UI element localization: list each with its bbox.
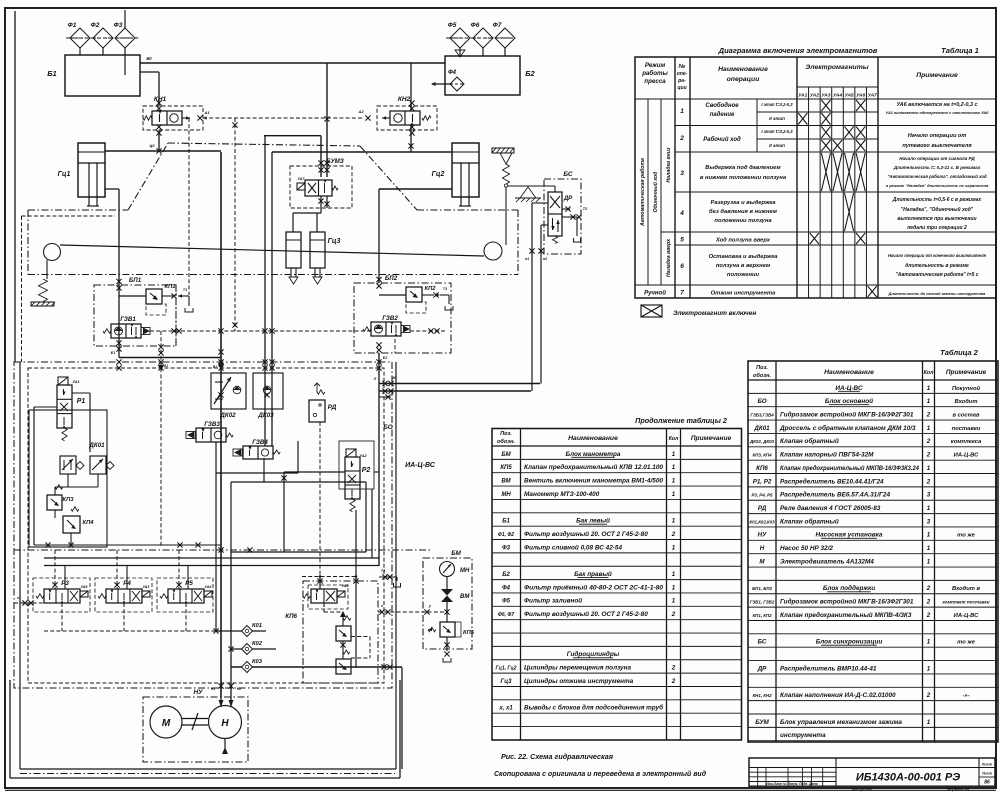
dash-dot bottom of ИА-Ц-ВС bbox=[195, 542, 200, 547]
svg-text:в режиме "Наладка" длительност: в режиме "Наладка" длительность не огран… bbox=[886, 183, 989, 188]
svg-text:УА1 включается одновременно с: УА1 включается одновременно с отключение… bbox=[886, 110, 990, 115]
svg-text:"Автоматическая работа" t=5 с: "Автоматическая работа" t=5 с bbox=[895, 271, 978, 278]
svg-text:Блок манометра: Блок манометра bbox=[566, 451, 621, 458]
svg-text:Длительность t=0,5-6 с в режим: Длительность t=0,5-6 с в режимах bbox=[892, 197, 982, 203]
valve Р2 bbox=[346, 449, 356, 457]
svg-text:Н: Н bbox=[221, 718, 229, 729]
svg-text:п1: п1 bbox=[525, 257, 529, 261]
svg-text:Распределитель ВЕ6.57.4А.31/Г2: Распределитель ВЕ6.57.4А.31/Г24 bbox=[780, 491, 890, 499]
svg-text:Ф2: Ф2 bbox=[91, 22, 100, 29]
svg-text:2: 2 bbox=[926, 692, 931, 699]
svg-text:1: 1 bbox=[672, 544, 676, 551]
БП2 ports bbox=[376, 342, 381, 347]
filter Ф3 bbox=[115, 28, 135, 48]
svg-text:Покупной: Покупной bbox=[952, 385, 981, 392]
svg-text:Начало операции от сигнала РД: Начало операции от сигнала РД bbox=[899, 156, 975, 161]
svg-text:Бак правый: Бак правый bbox=[574, 570, 612, 578]
svg-text:ВМ: ВМ bbox=[501, 478, 511, 484]
svg-text:1: 1 bbox=[927, 639, 931, 646]
svg-text:Отжим инструмента: Отжим инструмента bbox=[711, 291, 776, 297]
svg-text:К01: К01 bbox=[252, 623, 262, 629]
svg-text:УА5: УА5 bbox=[81, 585, 89, 589]
block БС bbox=[544, 179, 581, 254]
drain Т3 bbox=[379, 576, 397, 578]
svg-text:Т3: Т3 bbox=[443, 287, 447, 291]
filter Ф1 bbox=[70, 28, 90, 48]
svg-text:Продолжение таблицы 2: Продолжение таблицы 2 bbox=[635, 416, 727, 425]
svg-text:ДК01: ДК01 bbox=[88, 442, 105, 449]
svg-text:1: 1 bbox=[927, 385, 931, 392]
svg-text:2: 2 bbox=[926, 478, 931, 485]
svg-text:Диаграмма включения электромаг: Диаграмма включения электромагнитов bbox=[718, 46, 878, 55]
valve feed stems bbox=[64, 566, 66, 589]
filter Ф6 bbox=[473, 28, 493, 48]
svg-text:ДК02: ДК02 bbox=[219, 412, 236, 419]
svg-text:Е2: Е2 bbox=[383, 356, 387, 360]
svg-text:МН: МН bbox=[501, 492, 511, 498]
drain manifold dashed bbox=[44, 630, 215, 632]
port x1 bbox=[22, 600, 27, 605]
svg-text:ИА-Ц-ВС: ИА-Ц-ВС bbox=[835, 385, 863, 392]
svg-text:Примечание: Примечание bbox=[916, 72, 958, 79]
svg-text:ДК03: ДК03 bbox=[257, 412, 274, 419]
svg-text:Клапан предохранительный КПВ 1: Клапан предохранительный КПВ 12.01.100 bbox=[524, 463, 663, 471]
svg-text:Распределитель ВЕ10.44.41/Г24: Распределитель ВЕ10.44.41/Г24 bbox=[780, 477, 884, 485]
svg-text:Фильтр сливной 0,08 ВС 42-54: Фильтр сливной 0,08 ВС 42-54 bbox=[524, 543, 622, 551]
svg-text:Гц1, Гц2: Гц1, Гц2 bbox=[496, 666, 517, 672]
title block bbox=[749, 758, 995, 786]
pilot dashed line ГЗВ1-ГЗВ2 bbox=[150, 330, 371, 332]
svg-text:М: М bbox=[759, 558, 765, 565]
right pulley bbox=[484, 242, 502, 260]
svg-text:УА5: УА5 bbox=[845, 93, 854, 99]
svg-text:2: 2 bbox=[671, 678, 676, 685]
svg-text:ВМ: ВМ bbox=[460, 594, 470, 600]
svg-text:3: 3 bbox=[927, 492, 931, 499]
check valve К03 bbox=[231, 666, 402, 668]
svg-text:2: 2 bbox=[926, 438, 931, 445]
svg-text:Насосная установка: Насосная установка bbox=[816, 532, 883, 539]
svg-text:ИБ1430А-00-001 РЭ: ИБ1430А-00-001 РЭ bbox=[856, 772, 960, 784]
svg-text:Лист: Лист bbox=[981, 763, 993, 767]
wire Гц1 top port bbox=[105, 150, 221, 152]
svg-text:1: 1 bbox=[927, 719, 931, 726]
left pulley bbox=[44, 244, 61, 261]
svg-text:НУ: НУ bbox=[758, 532, 767, 539]
svg-text:Лист: Лист bbox=[981, 772, 993, 776]
svg-text:Кол: Кол bbox=[669, 436, 679, 442]
svg-text:Поз.: Поз. bbox=[500, 431, 512, 437]
svg-text:ДР: ДР bbox=[563, 196, 573, 202]
wire Б0 from tank Б1 to tank Б2 bbox=[140, 62, 445, 64]
svg-text:Режим: Режим bbox=[645, 62, 666, 69]
throttle-check ДК02 bbox=[211, 373, 246, 409]
svg-text:Фильтр воздушный 20. ОСТ 2 Г45: Фильтр воздушный 20. ОСТ 2 Г45-2-80 bbox=[524, 610, 648, 618]
svg-text:Клапан напорный ПВГ54-32М: Клапан напорный ПВГ54-32М bbox=[780, 451, 874, 459]
svg-text:УА4: УА4 bbox=[833, 93, 842, 99]
svg-text:II этап: II этап bbox=[769, 143, 785, 148]
svg-text:инструмента: инструмента bbox=[780, 732, 826, 739]
Р1 wires bbox=[34, 406, 57, 408]
svg-text:Рабочий ход: Рабочий ход bbox=[703, 136, 741, 143]
svg-text:Ф4: Ф4 bbox=[502, 585, 511, 591]
svg-text:педали три операции 2: педали три операции 2 bbox=[907, 225, 967, 231]
tank Б1 bbox=[65, 55, 140, 96]
Р2 wires bbox=[284, 471, 345, 473]
block БО boundary bbox=[28, 368, 384, 683]
svg-text:Р3, Р4, Р5: Р3, Р4, Р5 bbox=[752, 493, 774, 498]
svg-text:Ф5: Ф5 bbox=[502, 599, 511, 605]
svg-text:КП6: КП6 bbox=[756, 465, 768, 472]
svg-text:ДК01: ДК01 bbox=[753, 425, 770, 432]
svg-text:Цилиндры отжима инструмента: Цилиндры отжима инструмента bbox=[524, 677, 634, 685]
svg-text:БП1, БП2: БП1, БП2 bbox=[752, 586, 772, 591]
svg-text:УА1: УА1 bbox=[72, 380, 79, 384]
svg-text:Р5: Р5 bbox=[185, 580, 193, 587]
svg-text:КП3: КП3 bbox=[63, 497, 75, 503]
block БУМЗ bbox=[290, 166, 352, 208]
svg-text:КН1, КН2: КН1, КН2 bbox=[752, 693, 772, 698]
block ИА-Ц-ВС boundary bbox=[14, 362, 392, 688]
pilot line А1 bbox=[197, 115, 202, 120]
relief valve КП2 bbox=[406, 287, 422, 302]
svg-text:БС: БС bbox=[563, 171, 573, 178]
svg-text:№: № bbox=[678, 63, 686, 70]
svg-text:УА3: УА3 bbox=[821, 93, 830, 99]
svg-text:ции: ции bbox=[677, 85, 686, 91]
junction marks on БО border bbox=[116, 359, 121, 364]
solid box around Р1/ДК01/КП3/КП4 bbox=[29, 410, 107, 547]
pilot drops to valves bbox=[54, 550, 56, 581]
svg-text:Б2: Б2 bbox=[502, 572, 510, 578]
svg-text:Насос 50 НР 32/2: Насос 50 НР 32/2 bbox=[780, 545, 833, 552]
press frame dash-dot outline bbox=[28, 209, 128, 211]
svg-text:Входит: Входит bbox=[954, 399, 977, 405]
cylinder Гц1 bbox=[78, 143, 105, 197]
svg-text:Н2: Н2 bbox=[237, 687, 241, 691]
dashed line through filters Ф1-Ф3 bbox=[66, 37, 139, 39]
svg-text:1: 1 bbox=[927, 665, 931, 672]
svg-text:А2: А2 bbox=[357, 109, 364, 114]
svg-text:М: М bbox=[162, 718, 171, 729]
svg-text:2: 2 bbox=[926, 599, 931, 606]
svg-text:Ф7: Ф7 bbox=[493, 22, 502, 29]
svg-text:ра-: ра- bbox=[677, 78, 686, 84]
svg-text:Автоматическая работа: Автоматическая работа bbox=[639, 158, 646, 227]
dashed x-y line to БМ bbox=[378, 611, 447, 613]
svg-text:Ф6: Ф6 bbox=[471, 22, 480, 29]
svg-text:1: 1 bbox=[672, 451, 676, 458]
svg-text:Ф5: Ф5 bbox=[448, 22, 457, 29]
svg-text:УА7: УА7 bbox=[298, 177, 306, 181]
svg-text:БО: БО bbox=[383, 424, 393, 431]
svg-text:УА1: УА1 bbox=[798, 93, 807, 99]
svg-text:Рис. 22. Схема гидравлическая: Рис. 22. Схема гидравлическая bbox=[501, 752, 614, 761]
svg-text:поставки: поставки bbox=[952, 426, 981, 432]
svg-text:I этап t=0,2-0,3: I этап t=0,2-0,3 bbox=[761, 102, 793, 107]
svg-text:опе-: опе- bbox=[677, 71, 688, 77]
svg-text:ГЗВ3: ГЗВ3 bbox=[204, 421, 220, 428]
svg-text:УА7: УА7 bbox=[868, 93, 877, 99]
svg-text:Ход ползуна вверх: Ход ползуна вверх bbox=[715, 238, 771, 244]
svg-text:положении ползуна: положении ползуна bbox=[714, 218, 772, 224]
svg-text:УА2: УА2 bbox=[359, 454, 367, 458]
svg-text:Ф1, Ф2: Ф1, Ф2 bbox=[498, 532, 514, 538]
svg-text:1: 1 bbox=[672, 464, 676, 471]
svg-text:Клапан предохранительный МКПВ-: Клапан предохранительный МКПВ-4/3К3 bbox=[780, 611, 912, 619]
svg-text:КП5: КП5 bbox=[463, 630, 475, 636]
pilot dashed vertical x235 bbox=[234, 118, 236, 331]
relief valve КП1 bbox=[146, 289, 162, 304]
svg-text:ИА-Ц-ВС: ИА-Ц-ВС bbox=[405, 462, 436, 469]
long dash-dot separator y550 bbox=[14, 549, 430, 551]
svg-text:Бак левый: Бак левый bbox=[576, 517, 610, 525]
svg-text:падение: падение bbox=[710, 112, 735, 118]
svg-text:х, х1: х, х1 bbox=[498, 706, 513, 712]
svg-text:Остановка и выдержка: Остановка и выдержка bbox=[709, 254, 779, 260]
relief valve in КП6 upper bbox=[340, 611, 346, 617]
svg-text:Выводы с блоков для подсоедине: Выводы с блоков для подсоединения труб bbox=[524, 704, 664, 712]
БО output wires bbox=[378, 353, 380, 566]
svg-text:УА6: УА6 bbox=[856, 93, 865, 99]
svg-text:2: 2 bbox=[926, 411, 931, 418]
svg-text:II этап: II этап bbox=[769, 116, 785, 121]
svg-text:1: 1 bbox=[927, 465, 931, 472]
svg-text:К02: К02 bbox=[252, 641, 263, 647]
svg-text:ГЗВ3,ГЗВ4: ГЗВ3,ГЗВ4 bbox=[750, 412, 774, 417]
support triangle bbox=[520, 187, 536, 198]
svg-text:Наладка вверх: Наладка вверх bbox=[666, 238, 672, 277]
svg-text:КП1, КП2: КП1, КП2 bbox=[752, 613, 772, 618]
feed lines into БО bbox=[264, 135, 266, 446]
svg-text:Ф4: Ф4 bbox=[448, 70, 457, 76]
valve Р4 bbox=[98, 594, 106, 598]
svg-text:Таблица 1: Таблица 1 bbox=[941, 46, 979, 55]
left spring support bbox=[46, 260, 48, 279]
svg-text:7: 7 bbox=[680, 290, 684, 297]
svg-text:ползуна в верхнем: ползуна в верхнем bbox=[716, 263, 771, 269]
svg-text:Наименование: Наименование bbox=[718, 66, 768, 73]
svg-text:Поз.: Поз. bbox=[756, 365, 768, 371]
svg-text:I этап t=0,2-0,3: I этап t=0,2-0,3 bbox=[761, 129, 793, 134]
svg-text:БО: БО bbox=[757, 398, 766, 405]
svg-text:КП5: КП5 bbox=[500, 465, 512, 471]
svg-text:МН: МН bbox=[460, 568, 470, 574]
svg-text:2: 2 bbox=[671, 531, 676, 538]
filter Ф7 bbox=[495, 28, 515, 48]
svg-text:1: 1 bbox=[927, 398, 931, 405]
svg-text:1: 1 bbox=[927, 545, 931, 552]
svg-text:Р1: Р1 bbox=[77, 398, 86, 405]
svg-text:Гц3: Гц3 bbox=[328, 238, 341, 245]
svg-text:Н: Н bbox=[760, 545, 765, 552]
svg-text:1: 1 bbox=[672, 491, 676, 498]
svg-text:2: 2 bbox=[926, 452, 931, 459]
svg-text:Цилиндры перемещения ползуна: Цилиндры перемещения ползуна bbox=[524, 664, 631, 672]
manifold loop wires bbox=[216, 472, 298, 474]
svg-text:Т3: Т3 bbox=[381, 569, 385, 573]
svg-text:1: 1 bbox=[672, 598, 676, 605]
svg-text:УА6 включается на t=0,2-0,3 с: УА6 включается на t=0,2-0,3 с bbox=[897, 102, 978, 108]
svg-text:РД: РД bbox=[328, 404, 337, 411]
svg-text:К03: К03 bbox=[252, 659, 263, 665]
wire from Б1 to КН1 bbox=[140, 71, 159, 73]
svg-text:комплект поставки: комплект поставки bbox=[942, 600, 989, 605]
svg-text:Начало операции от конечного в: Начало операции от конечного выключателя bbox=[888, 253, 987, 258]
svg-text:ИА-Ц-ВС: ИА-Ц-ВС bbox=[954, 453, 979, 459]
svg-text:Р1, Р2: Р1, Р2 bbox=[753, 478, 772, 485]
main line Гц1 to pump bbox=[220, 152, 222, 697]
svg-text:КН2: КН2 bbox=[398, 96, 411, 103]
dashed enclosures for Р3 Р4 Р5 bbox=[33, 578, 90, 612]
svg-text:Наладка вниз: Наладка вниз bbox=[666, 147, 672, 182]
wire Гц1 bottom port to БП1 bbox=[105, 188, 119, 190]
svg-text:4: 4 bbox=[679, 210, 684, 217]
svg-text:КП4: КП4 bbox=[83, 520, 95, 526]
svg-text:1: 1 bbox=[927, 532, 931, 539]
svg-text:УА4: УА4 bbox=[205, 585, 212, 589]
svg-text:5: 5 bbox=[680, 237, 684, 244]
svg-text:1: 1 bbox=[672, 571, 676, 578]
svg-text:Манометр МТЗ-100-400: Манометр МТЗ-100-400 bbox=[524, 491, 600, 498]
КП6 internal piping bbox=[302, 576, 356, 578]
pressure relay РД bbox=[317, 390, 325, 394]
pilot dashed vertical from А line bbox=[188, 118, 190, 295]
svg-text:Длительность t= 0,2-11 с. В ре: Длительность t= 0,2-11 с. В режимах bbox=[893, 165, 981, 170]
svg-text:Примечание: Примечание bbox=[691, 435, 732, 442]
svg-text:Распределитель ВМР10.44-41: Распределитель ВМР10.44-41 bbox=[780, 664, 877, 672]
svg-text:Электромагнит включен: Электромагнит включен bbox=[673, 310, 756, 317]
svg-text:НУ: НУ bbox=[193, 689, 203, 696]
svg-text:Гидроцилиндры: Гидроцилиндры bbox=[567, 650, 620, 658]
svg-text:КН1: КН1 bbox=[154, 96, 167, 103]
svg-text:86: 86 bbox=[984, 780, 990, 786]
relief valve КП3 bbox=[55, 485, 63, 489]
valve Р3 bbox=[36, 594, 44, 598]
svg-text:"Наладка", "Одиночный ход": "Наладка", "Одиночный ход" bbox=[901, 206, 974, 213]
svg-text:в нижнем положении ползуна: в нижнем положении ползуна bbox=[700, 175, 787, 181]
svg-text:Скопирована с оригинала и пере: Скопирована с оригинала и переведена в э… bbox=[494, 770, 707, 778]
wire Б0 drop to БУМЗ bbox=[326, 63, 328, 177]
right press pad with spring bbox=[492, 148, 514, 153]
svg-text:Б1: Б1 bbox=[502, 519, 510, 525]
pump ports bbox=[220, 697, 222, 707]
svg-text:ГЗВ1, ГЗВ2: ГЗВ1, ГЗВ2 bbox=[750, 600, 775, 605]
block БМ bbox=[423, 558, 472, 649]
valve Р5 bbox=[160, 594, 168, 598]
svg-text:БМ: БМ bbox=[501, 452, 511, 458]
wire Гц2 bottom port to БП2 bbox=[379, 188, 452, 190]
filter Ф2 bbox=[93, 28, 113, 48]
svg-text:Электродвигатель 4А132М4: Электродвигатель 4А132М4 bbox=[780, 557, 874, 565]
svg-text:Дроссель с обратным клапаном Д: Дроссель с обратным клапаном ДКМ 10/3 bbox=[779, 424, 916, 432]
dashed press enclosure left bbox=[21, 216, 23, 362]
svg-text:обозн.: обозн. bbox=[753, 372, 772, 379]
svg-text:Клапан обратный: Клапан обратный bbox=[780, 517, 839, 525]
svg-text:Блок основной: Блок основной bbox=[825, 397, 873, 405]
БП1 ports bbox=[116, 340, 121, 345]
svg-text:Ф3: Ф3 bbox=[114, 22, 123, 29]
svg-text:Фильтр заливной: Фильтр заливной bbox=[524, 597, 582, 605]
check valve ДК03 bbox=[253, 373, 283, 409]
svg-text:без давления в нижнем: без давления в нижнем bbox=[709, 208, 778, 215]
svg-text:Длительность до полной замены: Длительность до полной замены инструмент… bbox=[888, 291, 987, 296]
filter Ф5 bbox=[450, 28, 470, 48]
svg-text:положении: положении bbox=[727, 272, 760, 278]
wire Б2 suction to КН2 bbox=[410, 63, 412, 111]
svg-text:ГЗВ2: ГЗВ2 bbox=[382, 315, 398, 322]
svg-text:Фильтр приёмный 40-80-2 ОСТ 2С: Фильтр приёмный 40-80-2 ОСТ 2С-41-1-80 bbox=[524, 583, 663, 591]
svg-text:БП2: БП2 bbox=[385, 275, 398, 282]
svg-text:БМ: БМ bbox=[451, 550, 461, 557]
svg-text:то же: то же bbox=[957, 640, 975, 646]
svg-text:А1: А1 bbox=[203, 110, 210, 115]
svg-text:1: 1 bbox=[672, 477, 676, 484]
svg-text:2: 2 bbox=[679, 135, 684, 142]
svg-text:ГЗВ4: ГЗВ4 bbox=[252, 439, 268, 446]
return line down right bbox=[401, 668, 403, 770]
svg-text:Копировал: Копировал bbox=[852, 788, 873, 792]
svg-text:Н1: Н1 bbox=[211, 687, 215, 691]
wire y545 bbox=[34, 544, 221, 546]
svg-text:Ф6, Ф7: Ф6, Ф7 bbox=[498, 612, 514, 618]
pump Н bbox=[209, 706, 242, 739]
svg-text:К01,К02,К03: К01,К02,К03 bbox=[749, 519, 775, 524]
svg-text:Клапан обратный: Клапан обратный bbox=[780, 437, 839, 445]
svg-text:Формат А4: Формат А4 bbox=[947, 788, 970, 792]
svg-text:БС: БС bbox=[758, 639, 767, 646]
svg-text:КП1: КП1 bbox=[165, 284, 176, 290]
svg-text:БУМ: БУМ bbox=[755, 719, 769, 726]
svg-text:путевого выключателя: путевого выключателя bbox=[902, 143, 972, 149]
svg-text:Выдержка под давлением: Выдержка под давлением bbox=[705, 165, 781, 171]
svg-text:Реле давления 4 ГОСТ 26005-83: Реле давления 4 ГОСТ 26005-83 bbox=[780, 504, 881, 512]
legend: электромагнит включен bbox=[641, 305, 662, 317]
gauge МН bbox=[440, 562, 455, 577]
block БП2 bbox=[354, 283, 451, 353]
svg-text:2: 2 bbox=[926, 612, 931, 619]
svg-text:ИА-Ц-ВС: ИА-Ц-ВС bbox=[954, 613, 979, 619]
valve КН2 bbox=[377, 106, 437, 130]
svg-text:БП1: БП1 bbox=[129, 277, 142, 284]
pump unit НУ bbox=[143, 697, 248, 762]
svg-text:Гидрозамок встройной МКГВ-16/3: Гидрозамок встройной МКГВ-16/3Ф2Г301 bbox=[780, 598, 914, 606]
svg-text:1: 1 bbox=[672, 518, 676, 525]
svg-text:длительность в режиме: длительность в режиме bbox=[905, 263, 969, 269]
svg-text:то же: то же bbox=[957, 533, 975, 539]
svg-text:Разгрузка и выдержка: Разгрузка и выдержка bbox=[710, 200, 776, 206]
svg-text:Е1: Е1 bbox=[111, 351, 115, 355]
coupling bbox=[182, 718, 208, 720]
svg-text:Клапан наполнения ИА-Д-С.02.01: Клапан наполнения ИА-Д-С.02.01000 bbox=[780, 692, 896, 699]
valve Р1 bbox=[58, 377, 68, 385]
svg-text:Гидрозамок встройной МКГВ-16/3: Гидрозамок встройной МКГВ-16/3Ф2Г301 bbox=[780, 410, 914, 418]
svg-text:Б2: Б2 bbox=[525, 69, 535, 78]
svg-text:1: 1 bbox=[680, 108, 684, 115]
wire Гц2 top port from КН2 bbox=[272, 151, 452, 153]
cylinders Гц3 bbox=[286, 232, 301, 268]
svg-text:КП3, КП4: КП3, КП4 bbox=[752, 453, 772, 458]
svg-text:УА3: УА3 bbox=[143, 585, 150, 589]
svg-text:Б0: Б0 bbox=[146, 56, 152, 61]
svg-text:в состав: в состав bbox=[953, 412, 980, 418]
relief valve КП5 bbox=[440, 622, 455, 637]
svg-text:Кол: Кол bbox=[924, 370, 934, 376]
svg-text:Р2: Р2 bbox=[362, 467, 371, 474]
svg-text:Ф3: Ф3 bbox=[502, 545, 511, 551]
svg-text:ГЗВ1: ГЗВ1 bbox=[120, 316, 136, 323]
svg-text:Гц2: Гц2 bbox=[432, 171, 445, 178]
